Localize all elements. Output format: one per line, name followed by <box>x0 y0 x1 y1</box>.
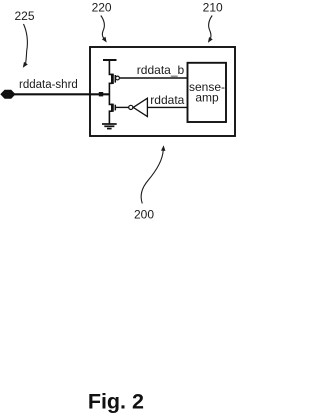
wire NMOS gate to inverter output <box>115 106 128 108</box>
wire NMOS source to ground <box>109 111 112 123</box>
inverter U1 (output bubble + triangle, pointing left) <box>129 98 148 116</box>
transistor Q1 PMOS keeper <box>112 74 119 84</box>
svg-text:amp: amp <box>195 91 219 105</box>
svg-text:rddata-shrd: rddata-shrd <box>19 79 78 91</box>
svg-text:210: 210 <box>203 1 223 15</box>
junction dot on rddata-shrd <box>99 92 103 96</box>
wire rddata (sense-amp to inverter input) <box>147 106 187 108</box>
wire rddata-shrd <box>13 93 109 95</box>
svg-text:rddata_b: rddata_b <box>137 63 185 77</box>
sense-amp block 210 <box>188 63 227 122</box>
wire VDD to PMOS source <box>109 60 112 74</box>
VDD supply bar <box>103 59 117 61</box>
svg-text:225: 225 <box>14 9 34 23</box>
circuit block 220 outer box <box>90 47 235 136</box>
leader arrow for 220 <box>101 16 107 43</box>
leader arrow for 225 <box>23 24 28 68</box>
wire PMOS drain down to node <box>109 83 112 94</box>
wire node to NMOS drain <box>109 94 112 104</box>
svg-text:rddata: rddata <box>150 93 184 107</box>
svg-text:Fig. 2: Fig. 2 <box>88 390 144 414</box>
svg-text:200: 200 <box>134 208 154 222</box>
leader arrow for 210 <box>208 16 213 43</box>
transistor Q2 NMOS <box>112 104 115 112</box>
terminal pad on rddata-shrd <box>1 90 15 98</box>
svg-text:220: 220 <box>92 1 112 15</box>
leader arrow for 200 <box>141 145 165 203</box>
wire rddata_b (PMOS gate to sense-amp) <box>119 77 187 79</box>
ground symbol <box>102 124 117 129</box>
